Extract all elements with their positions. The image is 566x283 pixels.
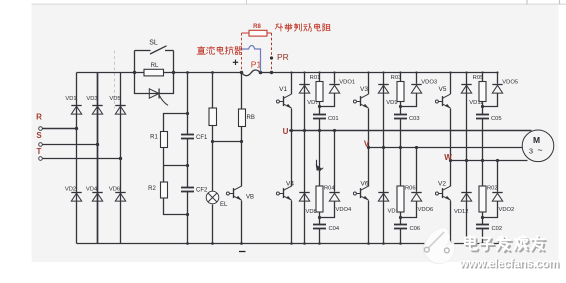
capacitor CF1: [181, 135, 208, 142]
junction snubber node top: [318, 105, 321, 108]
svg-text:V5: V5: [439, 86, 447, 93]
diode VDO2: [492, 193, 514, 214]
wire snubber resistor column bottom: [482, 161, 484, 187]
watermark text www.elecfans.com: [459, 257, 561, 271]
junction snubber node top: [399, 105, 402, 108]
capacitor C03: [394, 115, 420, 122]
wire T phase input: [42, 157, 122, 160]
wire V4 collector column: [291, 131, 293, 187]
motor M: [522, 130, 554, 162]
wire V3 collector column: [368, 73, 370, 95]
wire S phase input: [42, 143, 99, 146]
svg-text:C02: C02: [492, 226, 503, 232]
junction top bus taps: [290, 71, 335, 73]
wire freewheel diode column top: [466, 73, 468, 161]
diode VD2: [65, 187, 82, 202]
diode VDO1: [329, 80, 355, 94]
transistor V3: [353, 86, 368, 108]
wire snubber diode branch top: [401, 73, 417, 107]
diode VD7: [299, 85, 318, 107]
wire RB column: [241, 73, 243, 110]
diode VDO3: [411, 80, 437, 94]
wire V5 collector column: [450, 73, 452, 95]
wire lamp column: [212, 73, 214, 192]
arrow current marker: [316, 160, 318, 166]
junction VB bottom bus: [240, 242, 243, 245]
junction DC-link bottom bus: [186, 242, 189, 245]
svg-text:EL: EL: [220, 202, 228, 208]
wire R phase input: [42, 127, 78, 130]
label 外带制动电阻 (external braking resistor, red): [275, 24, 330, 32]
svg-text:R05: R05: [473, 75, 484, 81]
svg-text:V2: V2: [438, 181, 446, 188]
node S input terminal: [36, 131, 42, 146]
svg-text:VD6: VD6: [109, 187, 120, 193]
diode VD1: [65, 96, 81, 114]
diode VD9: [378, 85, 397, 107]
diode VDO6: [411, 193, 433, 214]
junction bottom bus taps: [290, 242, 321, 245]
wire freewheel diode column bottom: [466, 161, 468, 244]
diode VD6: [109, 187, 126, 202]
wire snubber diode branch bottom: [320, 131, 335, 218]
svg-text:VDO5: VDO5: [502, 80, 518, 86]
scan artifact dashed line: [114, 51, 116, 109]
svg-text:C04: C04: [329, 226, 340, 232]
svg-text:R1: R1: [150, 135, 158, 141]
svg-text:V4: V4: [286, 181, 294, 188]
transistor V1: [276, 86, 291, 108]
diode VD8: [299, 193, 316, 216]
resistor R06: [397, 186, 416, 213]
capacitor C04: [313, 225, 340, 232]
lamp EL: [206, 191, 228, 208]
wire phase V line: [367, 146, 523, 149]
wire rectifier column 3: [120, 73, 122, 244]
svg-text:3: 3: [529, 147, 533, 156]
diode VDO4: [329, 193, 352, 214]
svg-text:P1: P1: [251, 60, 262, 70]
junction snubber node bottom: [481, 216, 484, 219]
resistor RB: [239, 109, 255, 127]
svg-text:V6: V6: [361, 181, 369, 188]
resistor R8 (external braking): [242, 30, 272, 36]
diode VDO5: [492, 80, 518, 94]
svg-text:C01: C01: [328, 116, 339, 122]
wire V1 collector column: [291, 73, 293, 95]
svg-text:S: S: [36, 131, 42, 140]
junction bus/DC-link: [186, 71, 189, 74]
junction bottom bus taps: [367, 242, 402, 245]
junction top bus taps: [367, 71, 417, 73]
transistor V5: [435, 86, 450, 108]
capacitor C06: [394, 225, 420, 232]
svg-text:M: M: [533, 135, 540, 145]
junction top bus taps: [449, 71, 498, 73]
svg-text:VD5: VD5: [109, 96, 120, 102]
wire snubber resistor column bottom: [319, 131, 321, 187]
label minus: [239, 251, 246, 253]
wire snubber diode branch bottom: [483, 161, 498, 218]
svg-text:W: W: [444, 153, 452, 162]
wire freewheel diode column top: [383, 73, 385, 148]
resistor R01: [310, 75, 323, 101]
svg-text:R2: R2: [148, 186, 156, 192]
svg-text:~: ~: [537, 145, 542, 155]
diode VD11: [461, 85, 483, 107]
wire braking resistor left lead (dashed): [241, 33, 243, 71]
diode VD3: [86, 96, 102, 114]
junction DC-link bottom node: [186, 213, 189, 216]
junction bus + terminal: [240, 71, 244, 75]
wire phase W line: [449, 159, 528, 162]
svg-text:U: U: [283, 127, 289, 136]
label +: [233, 60, 238, 65]
diode VD12: [454, 193, 472, 216]
svg-text:SL: SL: [149, 40, 158, 47]
diode VD5: [109, 96, 125, 114]
resistor R3: [209, 108, 217, 126]
capacitor C01: [313, 115, 339, 122]
svg-text:VDO2: VDO2: [499, 207, 515, 213]
junction bottom bus taps: [449, 242, 484, 245]
resistor R2: [148, 182, 167, 198]
svg-text:C03: C03: [409, 116, 420, 122]
junction snubber node bottom: [399, 216, 402, 219]
wire snubber resistor column bottom: [400, 148, 402, 187]
wire rectifier column 1: [76, 73, 78, 244]
transistor VB: [226, 186, 254, 200]
svg-text:R8: R8: [253, 24, 261, 30]
svg-text:V3: V3: [360, 86, 368, 93]
wire rectifier column 2: [97, 73, 99, 244]
svg-text:R03: R03: [391, 75, 402, 81]
resistor RL: [144, 63, 164, 76]
wire balance branch: [164, 114, 188, 215]
svg-text:VB: VB: [246, 195, 254, 201]
wire snubber resistor column top: [482, 73, 484, 82]
diode VD4: [86, 187, 103, 202]
junction RB node: [240, 140, 243, 143]
svg-text:R: R: [36, 112, 42, 121]
transistor V6: [353, 181, 368, 201]
svg-text:R06: R06: [405, 186, 416, 192]
wire freewheel diode column bottom: [383, 148, 385, 244]
svg-text:T: T: [37, 147, 42, 156]
wire DC-link column: [187, 73, 189, 135]
wire RB to lamp column: [213, 141, 242, 143]
svg-text:VDO1: VDO1: [339, 80, 355, 86]
svg-text:CF2: CF2: [196, 188, 208, 194]
junction snubber node top: [481, 105, 484, 108]
svg-text:PR: PR: [277, 52, 289, 62]
junction snubber node bottom: [318, 216, 321, 219]
capacitor C02: [476, 225, 502, 232]
wire phase U line: [289, 129, 532, 132]
svg-text:www.elecfans.com: www.elecfans.com: [459, 257, 559, 270]
thyristor (SCR): [149, 89, 168, 106]
resistor R1: [150, 132, 167, 148]
watermark text 电子发烧友: [465, 236, 546, 253]
wire V6 collector column: [368, 148, 370, 187]
capacitor CF2: [181, 188, 208, 194]
node PR terminal: [270, 56, 273, 74]
junction SL left: [133, 71, 136, 74]
watermark logo leaf: [423, 227, 454, 264]
svg-text:C05: C05: [491, 116, 502, 122]
junction lamp column node: [211, 140, 214, 143]
diode VD10: [378, 193, 402, 215]
svg-text:VDO3: VDO3: [421, 80, 437, 86]
thyristor bypass loop wire: [135, 73, 174, 94]
svg-text:R04: R04: [324, 186, 335, 192]
svg-text:RB: RB: [247, 115, 255, 121]
transistor V4: [276, 181, 294, 201]
junction DC-link top node: [186, 112, 189, 115]
wire snubber diode branch bottom: [401, 148, 417, 218]
junction bus P1 terminal: [259, 71, 263, 75]
label 直流电抗器 (DC reactor, red): [197, 46, 242, 54]
junction lamp bottom bus: [211, 242, 214, 245]
wire freewheel diode column top: [304, 73, 306, 131]
svg-text:R01: R01: [310, 75, 321, 81]
wire snubber diode branch top: [320, 73, 335, 107]
capacitor C05: [476, 115, 502, 122]
transistor V2: [435, 181, 450, 201]
wire DC reactor jumper (blue): [242, 46, 261, 72]
wire braking resistor right lead (dashed): [271, 33, 273, 72]
svg-text:V1: V1: [279, 86, 287, 93]
resistor R02: [479, 186, 498, 213]
junction bus/lamp column: [211, 71, 214, 74]
junction DC-link mid node: [186, 164, 189, 167]
svg-text:CF1: CF1: [196, 135, 208, 141]
wire freewheel diode column bottom: [304, 131, 306, 244]
wire top DC bus left segment: [77, 72, 242, 74]
svg-text:RL: RL: [151, 63, 159, 69]
svg-text:VD3: VD3: [86, 96, 97, 102]
resistor R05: [473, 75, 486, 101]
node R input terminal: [36, 112, 42, 130]
wire P1 removable link (wavy): [242, 70, 261, 76]
svg-text:VD12: VD12: [454, 209, 469, 215]
resistor R03: [391, 75, 404, 101]
wire snubber diode branch top: [483, 73, 498, 107]
wire top DC bus right segment: [261, 72, 498, 74]
wire snubber resistor column top: [400, 73, 402, 82]
svg-text:R02: R02: [487, 186, 498, 192]
svg-text:VD8: VD8: [306, 209, 317, 215]
node T input terminal: [37, 147, 43, 160]
svg-text:VDO6: VDO6: [418, 207, 434, 213]
svg-text:VD9: VD9: [386, 100, 397, 106]
svg-text:VD2: VD2: [65, 187, 76, 193]
top table border line: [32, 0, 566, 5]
svg-text:C06: C06: [410, 226, 421, 232]
junction SL right: [172, 71, 175, 74]
svg-text:V: V: [364, 140, 370, 149]
wire snubber resistor column top: [319, 73, 321, 82]
wire V2 collector column: [450, 161, 452, 187]
wire bottom DC bus: [77, 243, 503, 245]
resistor R04: [316, 186, 335, 213]
relay contact SL: [135, 40, 174, 73]
svg-text:VD4: VD4: [86, 187, 98, 193]
svg-text:VD1: VD1: [65, 96, 76, 102]
svg-text:VDO4: VDO4: [336, 207, 353, 213]
